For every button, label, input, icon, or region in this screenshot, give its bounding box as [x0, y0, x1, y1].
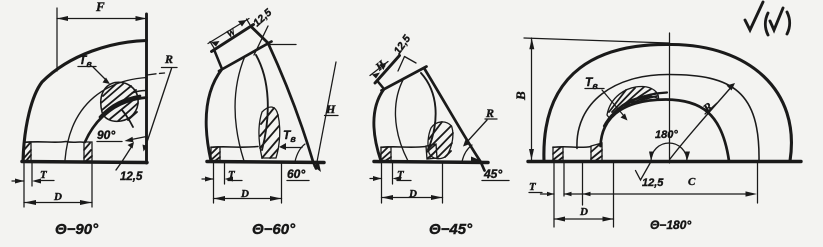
- axis centerline semicircle: [577, 74, 759, 161]
- tilted end face line: [212, 25, 269, 52]
- intrados broken-out hatched section: [428, 122, 453, 159]
- 45 degree angle label: [462, 145, 509, 181]
- right wall hatched section: [591, 143, 602, 161]
- Tb label: [279, 128, 302, 150]
- bottom end weld rectangle top edge: [211, 147, 258, 148]
- inner surface semicircle: [601, 100, 730, 162]
- bore edge arc: [421, 73, 436, 150]
- bottom face line: [207, 162, 324, 163]
- inner surface arc: [424, 68, 485, 171]
- left wall hatched section: [553, 147, 563, 161]
- outer surface arc: [374, 89, 384, 161]
- tilted end tangent line: [219, 42, 272, 72]
- bottom end weld rectangle top edge: [24, 142, 84, 143]
- F dimension: [57, 0, 147, 71]
- svg-text:R: R: [485, 106, 494, 120]
- large check mark: [745, 2, 763, 30]
- svg-text:F: F: [95, 0, 105, 14]
- inner surface arc: [268, 43, 316, 169]
- tilted end left edge: [377, 81, 384, 90]
- left wall hatched section: [24, 142, 31, 161]
- tilted end tangent line: [382, 67, 427, 91]
- vertical centerline: [669, 33, 671, 163]
- outer surface semicircle: [544, 44, 792, 161]
- svg-text:D: D: [579, 206, 588, 218]
- outer surface arc: [23, 41, 147, 162]
- axis centerline arc: [395, 78, 408, 161]
- left wall hatched section: [381, 147, 391, 161]
- R radius label and leader: [463, 106, 497, 147]
- FIGURE 2 : 60 degree elbow: [202, 7, 338, 238]
- tilted end face line: [375, 56, 400, 84]
- R radius line and label: [670, 83, 735, 159]
- T dimension: [370, 163, 411, 203]
- axis centerline arc: [65, 78, 147, 161]
- svg-text:R: R: [164, 52, 173, 66]
- svg-text:45°: 45°: [483, 167, 502, 181]
- 12,5 roughness callout: [116, 142, 143, 183]
- W dimension: [208, 19, 251, 49]
- 12,5 roughness on tilted face: [392, 33, 416, 71]
- Tb broken-out section blob on inner radius: [100, 82, 140, 127]
- T dimension: [12, 163, 54, 207]
- surface finish mark top right: [745, 2, 790, 35]
- svg-text:60°: 60°: [287, 167, 305, 181]
- 60 degree angle label: [287, 144, 321, 181]
- bottom face line: [22, 162, 147, 163]
- 12,5 roughness on tilted face: [251, 7, 296, 55]
- right end face line: [145, 14, 148, 163]
- D dimension: [24, 163, 92, 207]
- svg-text:D: D: [53, 191, 62, 203]
- open paren: [765, 13, 768, 35]
- T dimension: [202, 163, 242, 203]
- H dimension on tilted face: [370, 58, 388, 78]
- inner surface arc: [85, 98, 147, 143]
- 90 degree angle label: [97, 128, 147, 142]
- svg-text:12,5: 12,5: [642, 177, 664, 189]
- svg-text:C: C: [688, 176, 696, 188]
- FIGURE 3 : 45 degree elbow: [370, 33, 509, 238]
- svg-text:Θ−180°: Θ−180°: [650, 218, 691, 232]
- svg-text:Θ−90°: Θ−90°: [55, 221, 99, 238]
- svg-text:12,5: 12,5: [120, 171, 143, 183]
- right wall hatched section: [84, 142, 92, 161]
- wall edge arc stub at face: [132, 91, 147, 94]
- 180 degree angle arc: [649, 129, 690, 161]
- tilted end left edge: [214, 50, 222, 70]
- Tb crescent hatched section: [604, 86, 667, 126]
- Tb label: [78, 53, 110, 84]
- FIGURE 1 : 90 degree elbow: [12, 0, 177, 238]
- left end weld rectangle top edge: [553, 147, 591, 148]
- B dimension: [513, 38, 669, 160]
- svg-text:180°: 180°: [655, 129, 678, 141]
- svg-text:Θ−60°: Θ−60°: [252, 221, 296, 238]
- intrados broken-out hatched section: [259, 107, 280, 158]
- T and C shared dimension line: [529, 163, 758, 227]
- D dimension: [554, 163, 614, 227]
- small check mark: [770, 8, 783, 30]
- svg-text:D: D: [408, 188, 417, 200]
- right wall hatched section: [426, 144, 437, 159]
- svg-text:90°: 90°: [97, 128, 115, 142]
- Tb label: [585, 75, 628, 121]
- close paren: [787, 12, 790, 34]
- axis centerline arc: [235, 56, 245, 161]
- FIGURE 4 : 180 degree return bend: [513, 33, 801, 232]
- svg-text:B: B: [513, 91, 528, 101]
- D dimension: [214, 163, 282, 203]
- svg-text:Θ−45°: Θ−45°: [429, 221, 473, 238]
- left wall hatched section: [211, 147, 220, 161]
- 12,5 roughness callout: [636, 162, 665, 190]
- H dimension line: [316, 62, 338, 167]
- R radius label and leader: [143, 52, 178, 152]
- D dimension: [382, 163, 443, 203]
- bore edge arc: [256, 55, 268, 150]
- bottom face line: [374, 162, 488, 163]
- bottom face line: [528, 160, 801, 163]
- outer surface arc: [206, 69, 222, 161]
- bottom end weld rectangle top edge: [381, 147, 426, 148]
